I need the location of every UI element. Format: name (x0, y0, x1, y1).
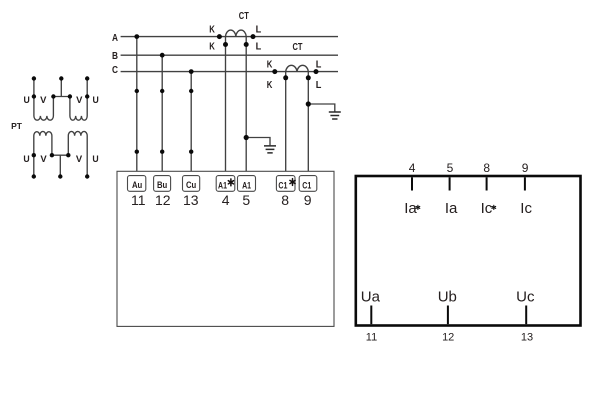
svg-text:Au: Au (132, 180, 142, 191)
svg-text:A1: A1 (218, 180, 228, 191)
svg-text:Ia: Ia (445, 200, 458, 217)
svg-text:U: U (23, 154, 29, 165)
svg-text:Ua: Ua (361, 289, 381, 306)
svg-text:CT: CT (239, 11, 249, 22)
svg-text:8: 8 (281, 192, 289, 208)
svg-text:Ub: Ub (438, 289, 457, 306)
svg-text:Ic: Ic (520, 200, 532, 217)
svg-text:4: 4 (409, 161, 416, 175)
svg-text:4: 4 (222, 192, 230, 208)
svg-text:11: 11 (131, 192, 146, 208)
svg-text:L: L (316, 80, 322, 91)
svg-text:12: 12 (155, 192, 171, 208)
svg-text:L: L (256, 42, 262, 53)
svg-text:B: B (112, 51, 118, 62)
svg-text:9: 9 (304, 192, 312, 208)
svg-text:U: U (93, 95, 99, 106)
svg-text:Ic: Ic (481, 200, 493, 217)
svg-text:U: U (24, 95, 30, 106)
svg-text:A: A (112, 33, 118, 44)
svg-text:K: K (209, 24, 215, 35)
svg-text:12: 12 (442, 331, 454, 343)
svg-text:Bu: Bu (157, 180, 167, 191)
svg-text:V: V (76, 154, 83, 165)
svg-text:K: K (267, 80, 273, 91)
svg-text:C1: C1 (302, 180, 312, 191)
svg-text:L: L (316, 60, 322, 71)
svg-text:C1: C1 (278, 180, 288, 191)
svg-text:U: U (92, 154, 98, 165)
svg-text:K: K (209, 41, 215, 52)
svg-text:13: 13 (183, 192, 199, 208)
svg-text:V: V (76, 95, 83, 106)
svg-text:K: K (267, 60, 273, 71)
svg-text:A1: A1 (242, 180, 252, 191)
svg-text:V: V (40, 154, 47, 165)
svg-text:11: 11 (366, 331, 377, 343)
svg-text:8: 8 (483, 161, 490, 175)
svg-text:5: 5 (242, 192, 250, 208)
svg-text:5: 5 (447, 161, 454, 175)
svg-text:9: 9 (522, 161, 529, 175)
svg-text:Uc: Uc (516, 289, 535, 306)
svg-text:PT: PT (11, 121, 23, 131)
svg-text:Cu: Cu (186, 180, 196, 191)
svg-text:C: C (112, 65, 118, 76)
svg-text:L: L (256, 24, 262, 35)
svg-text:CT: CT (293, 42, 303, 53)
svg-text:Ia: Ia (404, 200, 417, 217)
svg-text:13: 13 (521, 331, 533, 343)
svg-text:V: V (40, 95, 47, 106)
